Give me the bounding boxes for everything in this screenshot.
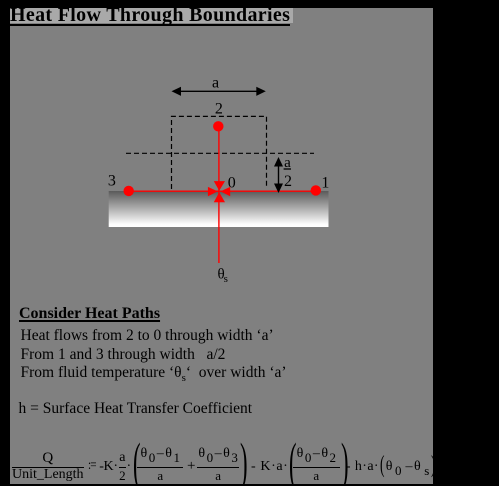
svg-text:2: 2 (215, 101, 223, 118)
node 3 dot (124, 186, 134, 196)
node 2 dot (213, 121, 223, 131)
-h times a times (346, 445, 379, 486)
label a/2 fraction (284, 155, 292, 190)
label theta_s (218, 267, 228, 285)
title underline (10, 24, 290, 26)
width arrow a (double headed) (172, 87, 266, 96)
fraction (th0 - th2)/a (293, 448, 339, 483)
fraction (th0 - th3)/a (197, 448, 238, 483)
svg-text:s: s (224, 273, 228, 285)
title text (10, 4, 290, 27)
-K times a times (251, 445, 288, 486)
last bracket group (th0 - ths) (380, 445, 435, 486)
svg-text:3: 3 (108, 172, 116, 189)
equation: Q/Unit_Length := -K a/2 (...) - K a (...) - h a (...) (12, 445, 84, 486)
second bracket group (289, 445, 347, 486)
fraction a over 2 (119, 448, 126, 483)
node 0 arrow right (220, 187, 230, 196)
svg-text:a: a (212, 75, 219, 92)
text: Consider Heat Paths (19, 304, 160, 323)
red vertical wire 2-0-s (218, 126, 220, 263)
text line 4 (19, 399, 253, 418)
text line 1 (21, 326, 274, 345)
dashed surface line (126, 152, 314, 154)
text line 3 (21, 363, 287, 388)
lhs fraction Q over Unit_Length (12, 448, 84, 483)
big open paren (133, 461, 136, 463)
dashed square (172, 116, 267, 189)
plus (187, 458, 195, 475)
node 0 arrow bottom (214, 192, 225, 202)
title highlight box (10, 8, 293, 23)
svg-text:1: 1 (321, 175, 329, 192)
-K times a/2 times (99, 445, 131, 486)
fraction (th0 - th1)/a (137, 448, 183, 483)
first bracket group (133, 445, 246, 486)
assign symbol (88, 445, 98, 486)
svg-text:0: 0 (228, 175, 236, 192)
depth arrow a/2 (double headed vertical) (274, 157, 283, 193)
node 0 arrow top (214, 181, 225, 191)
text line 2 (21, 345, 226, 364)
node 1 dot (311, 185, 321, 195)
big close paren (240, 461, 243, 463)
red horizontal wire 3-0-1 (129, 190, 317, 192)
gradient slab (109, 191, 329, 227)
svg-text:2: 2 (284, 173, 292, 190)
node 0 arrow left (208, 187, 218, 196)
